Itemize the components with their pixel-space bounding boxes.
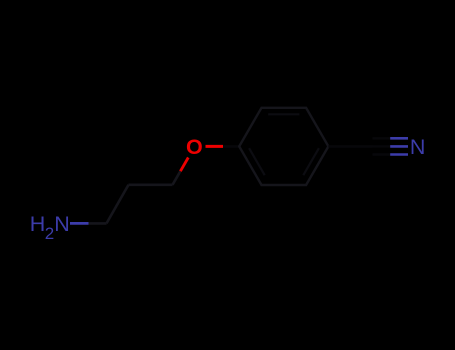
svg-text:N: N bbox=[410, 135, 426, 159]
wire: amine N-C1 bond dark half bbox=[89, 222, 107, 225]
wire: C3-O bond dark half bbox=[173, 171, 181, 185]
wire: O-ring bond red half bbox=[206, 145, 224, 148]
double bond inner line top bbox=[268, 113, 299, 115]
benzene ring bbox=[239, 108, 328, 185]
nitrile triple bond dark halves bbox=[373, 138, 391, 154]
atom H2N amine label bbox=[30, 212, 70, 243]
wire: amine N-C1 bond blue half bbox=[70, 222, 89, 225]
wire: O-ring bond dark half bbox=[223, 145, 239, 148]
svg-text:H: H bbox=[30, 212, 46, 236]
wire: C1-C2 bond bbox=[107, 185, 129, 224]
svg-text:O: O bbox=[186, 135, 203, 159]
svg-text:2: 2 bbox=[45, 224, 54, 243]
nitrile triple bond blue halves bbox=[390, 138, 408, 154]
wire: C2-C3 bond bbox=[129, 184, 173, 187]
double bond inner line bottom-right bbox=[303, 148, 319, 175]
wire: C3-O bond red half bbox=[180, 158, 188, 172]
double bond inner line bottom-left bbox=[249, 148, 265, 175]
svg-text:N: N bbox=[54, 212, 70, 236]
wire: ring-nitrile C bond bbox=[328, 145, 372, 148]
